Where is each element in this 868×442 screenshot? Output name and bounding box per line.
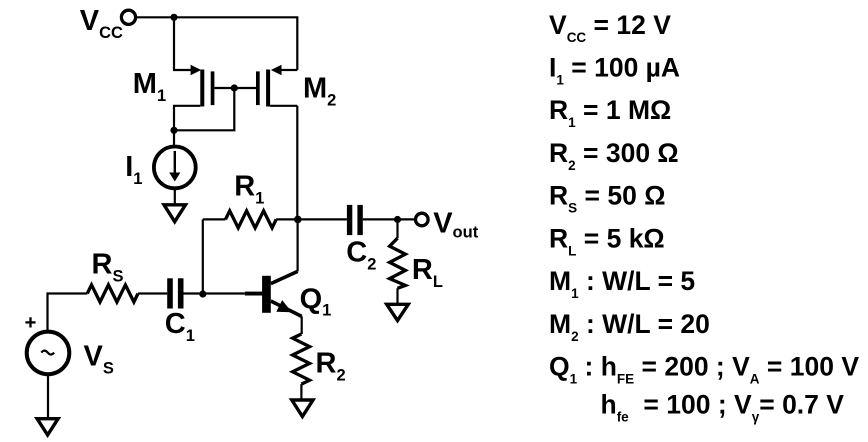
svg-text:M2: M2 bbox=[303, 72, 336, 109]
svg-text:VCC = 12 V: VCC = 12 V bbox=[549, 10, 671, 45]
resistor Rs bbox=[87, 285, 167, 302]
svg-text:Q1 : hFE = 200 ; VA = 100 V: Q1 : hFE = 200 ; VA = 100 V bbox=[549, 352, 859, 387]
wire RL to ground bbox=[396, 288, 398, 304]
svg-text:RS = 50 Ω: RS = 50 Ω bbox=[549, 181, 665, 216]
svg-text:VCC: VCC bbox=[80, 5, 123, 42]
wire Vs to ground bbox=[47, 375, 49, 419]
resistor R1 bbox=[226, 211, 298, 228]
wire node E to RL bbox=[396, 220, 398, 239]
ground (RL) bbox=[387, 304, 409, 320]
svg-text:Q1: Q1 bbox=[300, 283, 332, 319]
svg-text:R2: R2 bbox=[316, 347, 346, 384]
svg-text:M1 : W/L = 5: M1 : W/L = 5 bbox=[549, 266, 695, 301]
node F junction dot bbox=[199, 290, 206, 297]
wire gate net bbox=[214, 87, 256, 89]
wire R2 to ground bbox=[300, 384, 302, 400]
transistor M2 bbox=[256, 65, 297, 107]
wire feedback node to R1 bbox=[203, 218, 226, 220]
wire node B to I1 bbox=[173, 130, 175, 147]
svg-text:I1 = 100 µA: I1 = 100 µA bbox=[549, 53, 680, 88]
ground (R2) bbox=[292, 400, 313, 417]
svg-text:R1 = 1 MΩ: R1 = 1 MΩ bbox=[549, 95, 671, 130]
wire gate-drain diode connection bbox=[174, 88, 234, 130]
capacitor C2 bbox=[347, 205, 363, 235]
svg-text:M1: M1 bbox=[133, 68, 166, 105]
node A junction dot bbox=[170, 14, 177, 21]
transistor Q1 bbox=[245, 271, 302, 316]
wire M2 drain to output node bbox=[296, 106, 298, 220]
Vout terminal bbox=[416, 213, 429, 226]
current source I1 bbox=[154, 147, 196, 189]
ground (Vs) bbox=[37, 419, 58, 435]
svg-text:RS: RS bbox=[92, 248, 124, 285]
ground (I1) bbox=[164, 205, 186, 222]
svg-text:R1: R1 bbox=[234, 170, 264, 207]
wire emitter to R2 bbox=[301, 316, 303, 334]
svg-text:VS: VS bbox=[84, 340, 114, 377]
wire I1 to ground bbox=[174, 188, 176, 205]
svg-text:M2 : W/L = 20: M2 : W/L = 20 bbox=[549, 309, 710, 344]
svg-text:RL: RL bbox=[412, 254, 443, 291]
wire C1 to base node bbox=[184, 292, 245, 294]
wire C2 to Vout bbox=[363, 218, 415, 220]
node D junction dot bbox=[294, 216, 302, 224]
resistor R2 bbox=[293, 334, 310, 384]
wire Vs to Rs bbox=[48, 294, 88, 331]
svg-text:I1: I1 bbox=[125, 151, 142, 188]
svg-text:C1: C1 bbox=[165, 308, 195, 345]
wire node D to C2 bbox=[298, 218, 347, 220]
source vs plus sign bbox=[25, 317, 35, 327]
wire Vcc to M1 source bbox=[174, 17, 192, 70]
svg-text:Vout: Vout bbox=[433, 207, 479, 241]
node E junction dot bbox=[394, 216, 401, 223]
svg-text:R2 = 300 Ω: R2 = 300 Ω bbox=[549, 138, 679, 173]
capacitor C1 bbox=[167, 278, 183, 308]
svg-text:C2: C2 bbox=[346, 237, 376, 274]
svg-text:hfe = 100 ; Vγ= 0.7 V: hfe = 100 ; Vγ= 0.7 V bbox=[601, 390, 845, 425]
transistor M1 bbox=[174, 65, 214, 131]
wire feedback vertical bbox=[202, 219, 204, 293]
source Vs bbox=[27, 332, 70, 375]
node B junction dot bbox=[170, 127, 177, 134]
Vcc terminal bbox=[121, 10, 135, 24]
wire collector to node D bbox=[297, 219, 299, 271]
resistor RL bbox=[390, 238, 406, 288]
wire Vcc rail bbox=[136, 17, 297, 70]
node C gate junction dot bbox=[231, 84, 238, 91]
svg-text:RL = 5 kΩ: RL = 5 kΩ bbox=[549, 223, 665, 258]
